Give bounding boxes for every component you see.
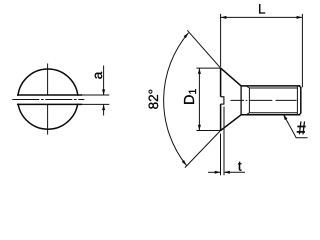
thread root upper xyxy=(249,87,297,89)
L extension line right xyxy=(301,14,303,88)
thread runout vertical xyxy=(248,88,250,113)
end chamfer diagonal upper xyxy=(299,86,301,88)
dimension a arrow up xyxy=(102,104,105,110)
extension line lower for a xyxy=(82,103,109,105)
thread leader arrow xyxy=(282,114,287,121)
slot edge upper xyxy=(17,94,82,96)
t extension line right xyxy=(223,107,225,176)
slot profile notch bottom xyxy=(221,103,224,105)
thread end face xyxy=(300,87,302,114)
screw axis centerline xyxy=(231,99,297,101)
countersink cone upper surface xyxy=(221,68,242,86)
slot profile notch bottom face xyxy=(223,96,225,104)
D1 arrow up xyxy=(198,68,201,74)
screw head top view: head circle xyxy=(18,69,78,129)
slot profile notch top xyxy=(221,96,224,98)
end chamfer diagonal lower xyxy=(299,113,301,115)
82 deg extension line upper xyxy=(187,30,220,68)
thread runout diagonal lower xyxy=(247,113,250,115)
horizontal centerline xyxy=(12,99,84,101)
D1 dimension line xyxy=(198,68,200,130)
thread crest lower xyxy=(241,114,300,116)
head base vertical xyxy=(240,86,242,115)
thread leader line xyxy=(283,114,307,137)
dimension a line upper xyxy=(103,66,105,96)
thread root lower xyxy=(249,112,297,114)
t dimension line left xyxy=(208,171,221,173)
82 deg arc arrow upper xyxy=(184,32,190,38)
svg-text:a: a xyxy=(90,71,105,79)
side view: head face upper xyxy=(220,68,222,97)
dimension a line lower xyxy=(103,104,105,115)
t dimension line right xyxy=(224,171,245,173)
slot cut-out band (interrupts circle outline) xyxy=(14,96,83,104)
thread runout diagonal upper xyxy=(247,86,250,88)
svg-text:t: t xyxy=(238,158,242,173)
82 deg extension line lower xyxy=(185,131,221,168)
t arrow pointing right xyxy=(215,171,221,174)
vertical centerline xyxy=(47,64,49,95)
countersink cone lower surface xyxy=(221,115,242,131)
D1 extension line upper xyxy=(197,67,220,69)
D1 extension line lower xyxy=(197,130,220,132)
slot edge lower xyxy=(17,103,82,105)
dimension a arrow down xyxy=(102,89,105,95)
chamfer start vertical xyxy=(296,86,298,115)
82 deg dimension arc xyxy=(164,33,189,166)
82 deg arc arrow lower xyxy=(182,160,188,166)
t arrow pointing left xyxy=(224,171,230,174)
svg-text:L: L xyxy=(258,1,266,16)
L arrow right xyxy=(297,16,303,19)
t extension line left xyxy=(220,134,222,176)
thread crest upper xyxy=(241,85,300,87)
L extension line left xyxy=(220,14,222,67)
L arrow left xyxy=(221,16,227,19)
D1 arrow down xyxy=(198,125,201,131)
svg-text:82°: 82° xyxy=(146,89,161,109)
L dimension line xyxy=(221,16,303,18)
extension line upper for a xyxy=(82,94,109,96)
side view: head face lower xyxy=(220,104,222,131)
label # thread size xyxy=(297,121,306,134)
vertical centerline lower part xyxy=(47,105,49,135)
